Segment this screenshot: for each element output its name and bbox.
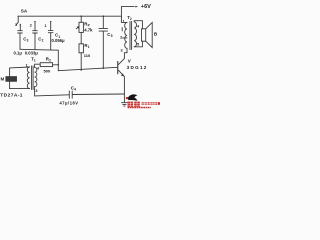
svg-text:2: 2 <box>49 58 51 62</box>
svg-text:500: 500 <box>44 68 51 73</box>
svg-text:3: 3 <box>35 89 37 93</box>
svg-text:1: 1 <box>34 58 36 62</box>
svg-text:4.7k: 4.7k <box>84 27 93 32</box>
svg-text:5: 5 <box>111 34 113 38</box>
svg-text:1: 1 <box>123 20 125 24</box>
svg-text:3: 3 <box>121 48 123 52</box>
svg-text:4: 4 <box>74 88 76 92</box>
svg-text:0.056μ: 0.056μ <box>52 38 65 43</box>
svg-text:0.1μ: 0.1μ <box>14 51 23 56</box>
svg-text:TD27A-1: TD27A-1 <box>0 93 23 99</box>
svg-text:+6V: +6V <box>141 4 151 10</box>
svg-text:2: 2 <box>42 39 44 43</box>
svg-text:2: 2 <box>120 35 122 39</box>
svg-text:1: 1 <box>88 45 90 49</box>
svg-text:3DG12: 3DG12 <box>127 65 148 70</box>
svg-text:0.033μ: 0.033μ <box>25 51 38 56</box>
svg-text:SA: SA <box>21 9 28 14</box>
svg-text:5: 5 <box>137 42 139 46</box>
svg-text:M: M <box>1 77 5 82</box>
svg-text:1: 1 <box>26 64 28 68</box>
svg-text:47μ/16V: 47μ/16V <box>60 101 79 106</box>
svg-text:3: 3 <box>27 39 29 43</box>
svg-text:2: 2 <box>130 17 132 21</box>
svg-text:110: 110 <box>84 53 91 58</box>
